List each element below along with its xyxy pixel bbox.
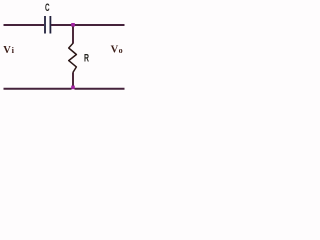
svg-text:Vi: Vi [3, 45, 14, 56]
wire: bottom-left horizontal [4, 88, 72, 90]
capacitor C (plates) [45, 16, 50, 34]
background [0, 0, 128, 101]
wire: vertical from top junction into resistor [72, 27, 74, 44]
node: bottom junction [71, 86, 75, 90]
wire: resistor to bottom junction [72, 73, 74, 87]
wire: top junction to right (Vo) [74, 24, 125, 26]
resistor R (zigzag) [69, 43, 77, 72]
svg-text:R: R [84, 53, 89, 65]
wire: top-left horizontal (Vi to capacitor) [4, 24, 45, 26]
svg-text:C: C [45, 2, 50, 14]
svg-text:Vo: Vo [111, 44, 123, 55]
node: top junction [71, 23, 75, 27]
wire: bottom-right horizontal [75, 88, 125, 90]
wire: capacitor to top junction [51, 24, 72, 26]
